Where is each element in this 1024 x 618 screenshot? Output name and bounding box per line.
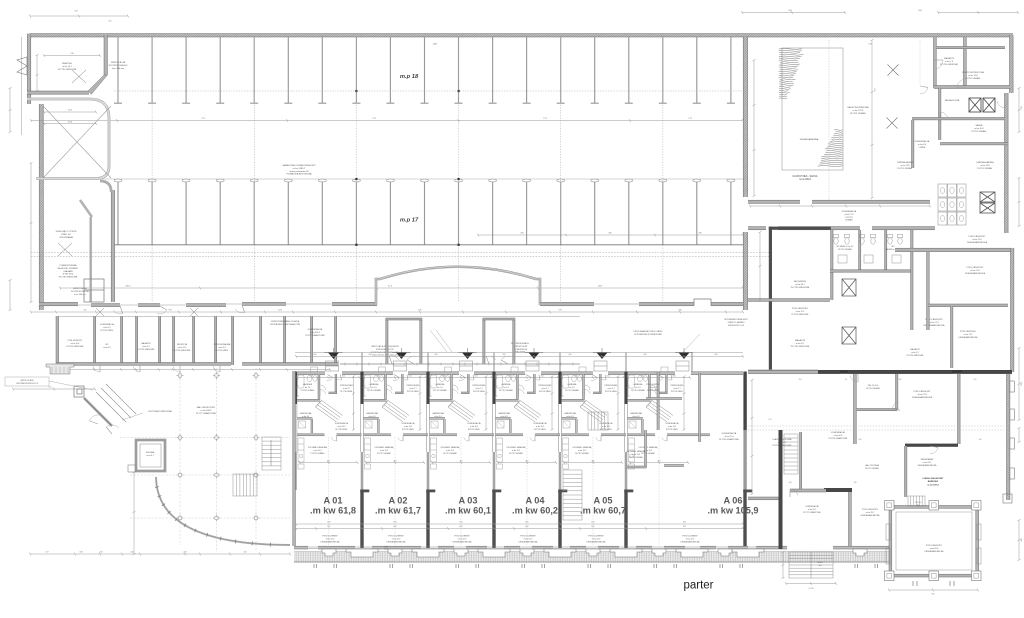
svg-text:LOKAL USŁUGOWY: LOKAL USŁUGOWY — [923, 477, 945, 480]
svg-text:ODKURZANIA: ODKURZANIA — [59, 236, 73, 239]
left exterior wall upper — [27, 34, 30, 104]
A06 komunikacja wall — [699, 373, 701, 442]
svg-text:KUCHNIA Z JADALNIĄ: KUCHNIA Z JADALNIĄ — [441, 446, 460, 449]
unit A05 interior — [583, 374, 585, 400]
svg-text:DESKA BARLINECKA: DESKA BARLINECKA — [681, 540, 701, 543]
svg-text:m kw 10,7: m kw 10,7 — [62, 66, 72, 68]
svg-text:A 06: A 06 — [723, 496, 742, 506]
svg-text:POKÓJ INSTRUKTORA: POKÓJ INSTRUKTORA — [962, 71, 984, 74]
terrace dim line y356 — [296, 355, 743, 357]
svg-text:KOMUNIKACJA: KOMUNIKACJA — [842, 210, 857, 213]
entrance door arcs — [90, 415, 102, 424]
vestibule box 2 — [483, 318, 485, 364]
office right of steps — [849, 492, 852, 546]
garage mid dashed horizontal — [114, 90, 743, 92]
svg-text:PŁYTKI CERAM.: PŁYTKI CERAM. — [866, 387, 880, 390]
svg-text:DESKA BARLINECKA: DESKA BARLINECKA — [918, 464, 938, 467]
svg-text:448: 448 — [789, 482, 792, 484]
svg-text:PŁYTKI GRANITOWE: PŁYTKI GRANITOWE — [829, 437, 848, 440]
svg-text:450: 450 — [658, 460, 661, 462]
svg-text:ŁAZIENKA: ŁAZIENKA — [634, 383, 643, 386]
svg-text:DESKA BARLINECKA: DESKA BARLINECKA — [519, 540, 539, 543]
svg-text:PŁYTKI GRES.: PŁYTKI GRES. — [647, 390, 660, 392]
svg-text:SZATNIA MĘSKA: SZATNIA MĘSKA — [897, 161, 913, 164]
svg-text:POKÓJ DZIENNY: POKÓJ DZIENNY — [588, 535, 604, 538]
svg-text:KOMUNIKACJA: KOMUNIKACJA — [600, 422, 614, 425]
party walls dark upper — [294, 372, 297, 405]
garage east boundary wall — [743, 37, 747, 197]
ground hatch strip — [294, 552, 749, 563]
svg-text:PŁYTKI CERAM.: PŁYTKI CERAM. — [865, 467, 879, 470]
svg-text:PŁYTKI CERAM.: PŁYTKI CERAM. — [499, 389, 513, 392]
stone wall hatch patch 2 — [818, 129, 843, 166]
svg-text:MAGAZYN: MAGAZYN — [795, 339, 806, 342]
office h wall y410 — [856, 409, 897, 411]
svg-text:GARDEROBA: GARDEROBA — [366, 412, 378, 415]
corridor leaders mid — [430, 330, 452, 352]
offices partition vertical 3 — [958, 374, 961, 444]
unit A04 interior — [517, 374, 519, 400]
svg-text:607: 607 — [683, 526, 686, 528]
svg-text:m kw 15,2: m kw 15,2 — [512, 450, 520, 452]
A01 west boundary wall — [293, 371, 296, 546]
svg-text:PŁYTKI GRES.: PŁYTKI GRES. — [534, 429, 547, 431]
band 2 top line — [60, 178, 743, 180]
left vertical dim — [133, 472, 135, 554]
svg-text:GARDEROBA: GARDEROBA — [630, 412, 642, 415]
terrace divider stubs — [362, 353, 692, 372]
svg-text:RECEPCJA: RECEPCJA — [177, 343, 188, 346]
protruding room bottom ticks — [913, 581, 954, 586]
fitness X marks — [888, 65, 899, 76]
svg-text:(PON 18,5): (PON 18,5) — [63, 274, 74, 276]
vestibule box 1 — [386, 318, 388, 364]
svg-text:30,5: 30,5 — [818, 565, 821, 567]
svg-text:KUCHNIA Z JADALNIĄ: KUCHNIA Z JADALNIĄ — [573, 446, 592, 449]
svg-text:POKÓJ DZIENNY: POKÓJ DZIENNY — [388, 535, 404, 538]
right strip wall y304 — [928, 304, 1008, 307]
svg-text:POKÓJ BIUROWY: POKÓJ BIUROWY — [862, 508, 879, 511]
svg-text:WENTYLACJA: WENTYLACJA — [111, 61, 126, 64]
svg-text:640: 640 — [859, 439, 862, 441]
svg-text:m kw 3,4: m kw 3,4 — [500, 416, 507, 418]
svg-text:PŁYTKI GRESOWE: PŁYTKI GRESOWE — [940, 64, 959, 66]
svg-text:.m kw 60,2: .m kw 60,2 — [512, 506, 558, 516]
svg-text:m kw 7,6: m kw 7,6 — [945, 61, 954, 63]
svg-text:SZEROKOŚĆ 5,0 B: SZEROKOŚĆ 5,0 B — [728, 324, 745, 327]
strip wall x=120.5 — [121, 316, 123, 365]
svg-text:PŁYTKI CERAM.: PŁYTKI CERAM. — [850, 112, 866, 115]
svg-text:m kw 10,2: m kw 10,2 — [602, 426, 610, 428]
svg-text:kw 7,6: kw 7,6 — [371, 387, 376, 389]
svg-text:PŁYTKI GRESOWE: PŁYTKI GRESOWE — [907, 355, 925, 357]
curtain wall arc — [156, 477, 290, 545]
svg-text:PŁYTKI CERAM.: PŁYTKI CERAM. — [629, 456, 643, 459]
svg-text:m kw 605,1: m kw 605,1 — [310, 332, 321, 334]
svg-text:POM. BIUROWY: POM. BIUROWY — [68, 340, 83, 342]
svg-text:NA WÓZKI, ROWERY: NA WÓZKI, ROWERY — [58, 267, 79, 270]
corridor dashed right wing — [748, 426, 1004, 430]
svg-text:PRZEDSIONEK: PRZEDSIONEK — [605, 385, 619, 387]
unit A02 interior — [385, 374, 387, 400]
bottom-left dimension line — [30, 553, 290, 555]
svg-text:450: 450 — [327, 460, 330, 462]
svg-text:HALL TEODENA: HALL TEODENA — [865, 464, 879, 467]
protruding room pilasters — [885, 501, 982, 581]
svg-text:240: 240 — [243, 552, 246, 554]
svg-text:PŁYTKI GRES.: PŁYTKI GRES. — [468, 429, 481, 431]
svg-text:m kw 15,2: m kw 15,2 — [380, 450, 388, 452]
svg-text:450: 450 — [394, 460, 397, 462]
top-left corner marks — [30, 15, 128, 17]
wiata step — [128, 465, 136, 472]
strip wall x=334.5 — [335, 316, 337, 365]
svg-text:m kw 3,4: m kw 3,4 — [434, 416, 441, 418]
dark wall stub — [824, 488, 852, 492]
svg-text:PŁYTKI GRESOWE: PŁYTKI GRESOWE — [174, 350, 192, 352]
svg-text:MAGAZYN: MAGAZYN — [141, 342, 151, 345]
svg-text:m kw 15,8: m kw 15,8 — [968, 75, 978, 77]
svg-text:m kw 3,5: m kw 3,5 — [103, 347, 111, 349]
svg-text:139: 139 — [1021, 106, 1023, 109]
svg-text:m kw 299,6: m kw 299,6 — [799, 179, 811, 181]
svg-text:m kw 22,5: m kw 22,5 — [524, 538, 533, 540]
svg-text:PŁYTKI CERAM.: PŁYTKI CERAM. — [301, 389, 315, 392]
svg-text:980: 980 — [715, 354, 718, 356]
hall stairs 1 — [262, 437, 281, 470]
svg-text:m kw 10,2: m kw 10,2 — [337, 426, 345, 428]
svg-text:m kw 10,8: m kw 10,8 — [974, 128, 984, 130]
svg-text:m kw 168,3: m kw 168,3 — [201, 410, 212, 412]
svg-text:PRZEDSIONEK: PRZEDSIONEK — [407, 385, 421, 387]
right wing south wall — [748, 497, 780, 500]
svg-text:m kw 19,3: m kw 19,3 — [632, 454, 640, 456]
corridor dim marks — [750, 205, 930, 207]
inner rounded wall — [27, 99, 109, 179]
diagonal wall — [80, 200, 92, 217]
svg-text:CERAM.: CERAM. — [845, 219, 853, 222]
protruding room entry steps — [908, 496, 925, 506]
svg-text:17x17,6: 17x17,6 — [915, 502, 921, 504]
shower stall grid top right — [938, 184, 966, 225]
svg-text:PŁYTKI CERAM.: PŁYTKI CERAM. — [565, 389, 579, 392]
svg-text:m kw 13,8: m kw 13,8 — [900, 165, 910, 167]
svg-text:607: 607 — [459, 526, 462, 528]
svg-text:KUCHNIA Z JADALNIĄ: KUCHNIA Z JADALNIĄ — [627, 450, 646, 453]
svg-text:248: 248 — [641, 375, 644, 377]
svg-text:980: 980 — [569, 354, 572, 356]
svg-text:607: 607 — [327, 526, 330, 528]
protruding room window bays — [886, 524, 981, 564]
svg-text:m kw 5,5: m kw 5,5 — [103, 327, 111, 329]
long dark wall right wing (with gaps) — [818, 370, 840, 374]
strip wall x=172.5 — [173, 316, 175, 365]
svg-text:450: 450 — [592, 460, 595, 462]
svg-text:m kw 2,7: m kw 2,7 — [409, 388, 416, 390]
svg-text:.m kw 60,7: .m kw 60,7 — [580, 506, 626, 516]
svg-text:248: 248 — [377, 375, 380, 377]
svg-text:m kw 29,8: m kw 29,8 — [930, 548, 939, 550]
svg-text:314: 314 — [673, 375, 676, 377]
svg-text:m kw 2,7: m kw 2,7 — [475, 388, 482, 390]
svg-text:314: 314 — [607, 375, 610, 377]
strip glazing to hall — [340, 363, 580, 365]
svg-text:m kw 1585,7: m kw 1585,7 — [293, 168, 306, 170]
garage floor line below band2 — [114, 244, 743, 246]
garage parking stalls band 2 — [114, 179, 735, 244]
svg-text:248: 248 — [509, 375, 512, 377]
svg-text:KOMUNIKACJA: KOMUNIKACJA — [468, 422, 482, 425]
svg-text:kw 7,6: kw 7,6 — [305, 387, 310, 389]
sw diagonal facade — [84, 398, 112, 426]
top dim line right portion — [742, 12, 845, 14]
svg-text:SAUNA SUCHA: SAUNA SUCHA — [945, 99, 960, 102]
wiata square — [136, 440, 165, 471]
svg-text:PŁYTKI CERAM.: PŁYTKI CERAM. — [971, 130, 987, 133]
svg-text:GARDEROBA: GARDEROBA — [300, 412, 312, 415]
svg-text:PRZECHOWALNIA: PRZECHOWALNIA — [214, 343, 231, 346]
svg-text:m kw 3,4: m kw 3,4 — [632, 416, 639, 418]
far-left dim marks — [9, 88, 11, 132]
svg-text:ZJAZD DO GARAŻU: ZJAZD DO GARAŻU — [728, 321, 745, 324]
svg-text:m kw 20,7: m kw 20,7 — [808, 509, 816, 511]
svg-text:PŁYTKI CERAM.: PŁYTKI CERAM. — [433, 389, 447, 392]
svg-text:248: 248 — [310, 375, 313, 377]
svg-text:338: 338 — [854, 482, 857, 484]
svg-text:PRZEDSIONEK: PRZEDSIONEK — [340, 385, 354, 387]
svg-text:POKÓJ BIUROWY: POKÓJ BIUROWY — [960, 330, 977, 333]
svg-text:ŚMIETNIK: ŚMIETNIK — [62, 62, 72, 65]
toilets mid block walls — [831, 230, 833, 300]
svg-text:655: 655 — [327, 522, 330, 524]
svg-text:ARCHIWUM: ARCHIWUM — [794, 280, 806, 283]
svg-text:m kw 8,7: m kw 8,7 — [796, 343, 805, 345]
svg-text:GARAŻ WIELOSTANOWISKOWY: GARAŻ WIELOSTANOWISKOWY — [282, 164, 316, 167]
svg-text:310: 310 — [974, 379, 977, 381]
svg-text:HALA ĆWICZENIOWA: HALA ĆWICZENIOWA — [847, 106, 869, 109]
svg-text:PRZEDSIONEK: PRZEDSIONEK — [473, 385, 487, 387]
svg-text:DRZWI PRZESUWANE Z KLAPKĄ: DRZWI PRZESUWANE Z KLAPKĄ — [271, 320, 300, 323]
terrace edge line — [295, 352, 743, 354]
top right partition walls — [939, 88, 941, 140]
svg-text:PŁYTKI GRES.: PŁYTKI GRES. — [101, 330, 114, 332]
strip door arcs — [93, 365, 100, 372]
svg-text:POKÓJ BIUROWY: POKÓJ BIUROWY — [914, 390, 932, 393]
south facade wall — [294, 546, 308, 549]
svg-text:TAC 4,9-9,55: TAC 4,9-9,55 — [868, 384, 879, 387]
svg-text:314: 314 — [342, 375, 345, 377]
svg-text:LUŹNE: LUŹNE — [919, 146, 926, 149]
garage south wall west part — [39, 302, 78, 305]
svg-text:kw 7,6: kw 7,6 — [437, 387, 442, 389]
A06 right boundary heavy — [779, 430, 783, 549]
strip wall x=231.5 — [232, 316, 234, 365]
svg-text:m kw 5,1: m kw 5,1 — [649, 387, 656, 389]
svg-text:GARDEROBA: GARDEROBA — [498, 412, 510, 415]
svg-text:kw 7,6: kw 7,6 — [569, 387, 574, 389]
svg-text:ŁAZIENKA: ŁAZIENKA — [436, 383, 445, 386]
svg-text:PŁYTKI: PŁYTKI — [846, 217, 853, 219]
svg-text:1319: 1319 — [1021, 382, 1023, 386]
svg-text:m kw 13,8: m kw 13,8 — [980, 165, 990, 167]
col dim chain garage right — [753, 60, 755, 196]
svg-text:m kw 9,5: m kw 9,5 — [218, 347, 226, 349]
svg-text:DESKA BARLINECKA: DESKA BARLINECKA — [861, 514, 881, 517]
svg-text:A 02: A 02 — [388, 496, 407, 506]
shaft boxes — [842, 279, 856, 296]
svg-text:DESKA BARLINECKA: DESKA BARLINECKA — [387, 540, 407, 543]
svg-text:PŁYTKI GRANITOWE: PŁYTKI GRANITOWE — [719, 438, 739, 441]
facade window glazing — [308, 547, 756, 549]
svg-text:m kw 10,2: m kw 10,2 — [470, 426, 478, 428]
door arcs top right — [934, 60, 943, 69]
garage dimension line 1 — [31, 120, 743, 122]
svg-text:607: 607 — [525, 526, 528, 528]
svg-text:PŁYTKI CERAM.: PŁYTKI CERAM. — [897, 167, 913, 170]
right exterior wall — [1010, 35, 1014, 93]
svg-text:230: 230 — [99, 552, 102, 554]
unit A06 interior — [649, 374, 651, 400]
fitness hall dashed grid — [828, 40, 830, 200]
svg-text:29,5: 29,5 — [916, 505, 919, 507]
svg-text:PRZEDSIONEK: PRZEDSIONEK — [539, 385, 553, 387]
south wall door recess — [694, 299, 711, 306]
offices partition vertical 1 — [854, 374, 857, 444]
dim line below strip corner — [13, 388, 95, 390]
stone wall rectangle — [782, 48, 843, 170]
svg-text:.m kw 61,8: .m kw 61,8 — [310, 506, 356, 516]
svg-text:DESKA BARLINECKA: DESKA BARLINECKA — [321, 540, 341, 543]
svg-text:POKÓJ BIUROWY: POKÓJ BIUROWY — [792, 307, 809, 310]
svg-text:KLUB FITNES - SAUNA: KLUB FITNES - SAUNA — [793, 175, 818, 178]
svg-text:.m kw 60,1: .m kw 60,1 — [445, 506, 491, 516]
svg-text:ŁAZIENKA: ŁAZIENKA — [370, 383, 379, 386]
stone wall hatch patch 1 — [779, 48, 804, 98]
svg-text:655: 655 — [525, 522, 528, 524]
svg-text:A 05: A 05 — [593, 496, 612, 506]
svg-text:W STROPODACHU: W STROPODACHU — [109, 64, 128, 67]
svg-text:POSADZKA BETONOWA: POSADZKA BETONOWA — [286, 173, 312, 176]
corridor north wall — [748, 200, 800, 203]
svg-text:PŁYTKI CERAM.: PŁYTKI CERAM. — [509, 452, 523, 455]
wall below mid block — [748, 370, 818, 373]
svg-text:607: 607 — [591, 526, 594, 528]
svg-text:POKÓJ BIUROWY: POKÓJ BIUROWY — [967, 266, 985, 269]
svg-text:980: 980 — [314, 354, 317, 356]
strip rooms outer — [56, 316, 59, 368]
svg-text:PŁYTKI CERAM.: PŁYTKI CERAM. — [367, 389, 381, 392]
svg-text:m.p 17: m.p 17 — [400, 218, 419, 224]
svg-text:KOMUNIKACJA: KOMUNIKACJA — [666, 422, 680, 425]
svg-text:m kw 21,8: m kw 21,8 — [970, 270, 980, 272]
svg-text:KOMUNIKACJA: KOMUNIKACJA — [806, 505, 820, 508]
svg-text:417: 417 — [48, 387, 51, 389]
wall y=248 right block — [895, 248, 1014, 251]
svg-text:m kw 10,2: m kw 10,2 — [668, 426, 676, 428]
unit A03 interior — [451, 374, 453, 400]
svg-text:PŁYTY GRANITOWE: PŁYTY GRANITOWE — [196, 412, 217, 415]
svg-text:PRZEDSIONEK: PRZEDSIONEK — [671, 385, 685, 387]
svg-text:248,1: 248,1 — [125, 286, 131, 288]
svg-text:DOPOSAŻONE W OŚWIETLENIE: DOPOSAŻONE W OŚWIETLENIE — [634, 333, 662, 336]
svg-text:655: 655 — [591, 522, 594, 524]
garage column grid dashed verticals — [152, 37, 663, 302]
svg-text:m kw 10,2: m kw 10,2 — [536, 426, 544, 428]
svg-text:980: 980 — [369, 354, 372, 356]
svg-text:HALL WEJŚCIOWY: HALL WEJŚCIOWY — [197, 406, 216, 409]
svg-text:CENTRALNEGO DOMYKANIA (TZW): CENTRALNEGO DOMYKANIA (TZW) — [270, 323, 301, 326]
svg-text:DESKA BARLINECKA: DESKA BARLINECKA — [587, 540, 607, 543]
strip dimension line — [31, 311, 743, 313]
svg-text:GARDEROBA: GARDEROBA — [564, 412, 576, 415]
svg-text:m kw 19,6: m kw 19,6 — [71, 343, 80, 345]
steps side dims — [782, 552, 784, 578]
svg-text:A 01: A 01 — [323, 496, 342, 506]
svg-text:PŁYTKI GRES.: PŁYTKI GRES. — [407, 391, 420, 393]
svg-text:PŁYTKI CERAM.: PŁYTKI CERAM. — [443, 452, 457, 455]
svg-text:ŁAZIENKA: ŁAZIENKA — [568, 383, 577, 386]
svg-text:318: 318 — [79, 552, 82, 554]
svg-text:parter: parter — [683, 580, 713, 592]
svg-text:POKÓJ DZIENNY: POKÓJ DZIENNY — [520, 535, 536, 538]
protruding room inner line — [896, 512, 972, 570]
svg-text:PŁYTKI CERAM.: PŁYTKI CERAM. — [311, 452, 325, 455]
svg-text:.m kw 61,7: .m kw 61,7 — [375, 506, 421, 516]
svg-text:PŁYTKI GRESOWE: PŁYTKI GRESOWE — [791, 287, 810, 289]
svg-text:393: 393 — [799, 379, 802, 381]
right wing door arcs — [850, 374, 858, 382]
entrance steps south — [789, 552, 833, 578]
svg-text:STERUJĄCY OTWÓR: STERUJĄCY OTWÓR — [56, 230, 77, 233]
hall stairs 2 — [233, 474, 257, 496]
svg-text:m kw 187,2: m kw 187,2 — [927, 485, 939, 487]
svg-text:DESKA BARLINECKA: DESKA BARLINECKA — [965, 272, 986, 275]
strip wall x=310.5 — [311, 316, 313, 365]
garage parking stalls band 1 — [114, 37, 735, 103]
svg-text:PŁYTKI CERAM.: PŁYTKI CERAM. — [631, 389, 645, 392]
door X marks left wing — [58, 70, 86, 256]
svg-text:585: 585 — [1021, 538, 1023, 541]
svg-text:PŁYTY GRANITOWE: PŁYTY GRANITOWE — [305, 334, 325, 337]
svg-text:m kw 19,7: m kw 19,7 — [866, 512, 875, 514]
sekretariat west wall — [905, 446, 907, 497]
svg-text:950: 950 — [931, 594, 934, 596]
svg-text:PŁYTY GRANITOWE: PŁYTY GRANITOWE — [803, 511, 821, 514]
svg-text:m kw 22,5: m kw 22,5 — [392, 538, 401, 540]
svg-text:KOMUNIKACJA: KOMUNIKACJA — [335, 422, 349, 425]
svg-text:607: 607 — [393, 526, 396, 528]
svg-text:PŁYTKI GRES.: PŁYTKI GRES. — [216, 350, 229, 352]
svg-text:408: 408 — [899, 379, 902, 381]
svg-text:PŁYTKI GRES.: PŁYTKI GRES. — [402, 429, 415, 431]
svg-text:m kw 50,4: m kw 50,4 — [834, 435, 843, 437]
svg-text:655: 655 — [459, 522, 462, 524]
svg-text:PŁYTKI CERAM.: PŁYTKI CERAM. — [965, 77, 981, 80]
svg-text:PŁYTKI GRES.: PŁYTKI GRES. — [671, 391, 684, 393]
svg-text:BIUROWY: BIUROWY — [928, 481, 939, 483]
svg-text:KUCHNIA Z JADALNIĄ: KUCHNIA Z JADALNIĄ — [507, 446, 526, 449]
svg-text:980: 980 — [644, 354, 647, 356]
svg-text:MAGAZYN: MAGAZYN — [910, 348, 920, 351]
svg-text:m kw 3,4: m kw 3,4 — [302, 416, 309, 418]
svg-text:POM. GOSPOD.: POM. GOSPOD. — [646, 384, 660, 386]
obrys text bottom left — [5, 377, 49, 386]
facade arch — [376, 267, 540, 305]
svg-text:ODPOWIEDZI EKSPOZYCJI: ODPOWIEDZI EKSPOZYCJI — [16, 383, 38, 385]
curtain wall mullions — [155, 487, 270, 547]
svg-text:PŁYTKI GRES.: PŁYTKI GRES. — [335, 429, 348, 431]
svg-text:SEKRETARIAT: SEKRETARIAT — [921, 458, 935, 461]
